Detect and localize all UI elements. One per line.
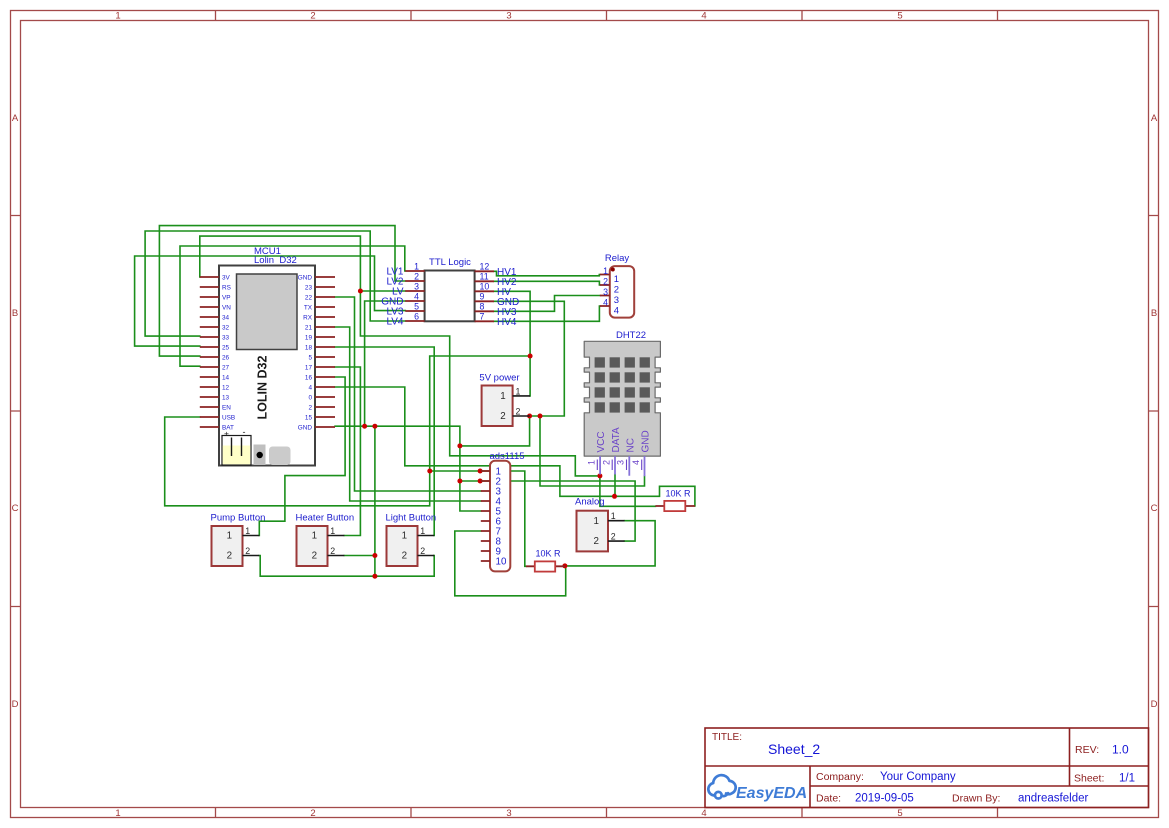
- Relay body: [610, 266, 634, 318]
- svg-text:4: 4: [308, 385, 312, 392]
- wire MCU 21 to ads pin4: [335, 327, 481, 501]
- svg-text:-: -: [243, 427, 246, 437]
- svg-text:Analog: Analog: [575, 497, 605, 508]
- junction dot ads pin1 riser: [427, 469, 432, 474]
- svg-text:2: 2: [414, 272, 419, 282]
- 5V power pin stubs: [513, 396, 531, 416]
- svg-text:A: A: [12, 113, 19, 124]
- wire MCU 16 to Pump Button pin1: [259, 377, 345, 536]
- Heater Button pin stubs: [328, 536, 345, 556]
- MCU1 battery electrolyte: [223, 446, 251, 465]
- wire net 3V3: MCU 3V to TTL LV, DHT VCC, pullup R1: [200, 236, 656, 506]
- svg-text:C: C: [12, 503, 19, 514]
- svg-text:DHT22: DHT22: [616, 330, 646, 341]
- svg-text:7: 7: [480, 312, 485, 322]
- svg-text:4: 4: [701, 11, 706, 22]
- svg-text:RS: RS: [222, 285, 231, 292]
- junction dot 5V power pin2: [527, 414, 532, 419]
- svg-text:A: A: [1151, 113, 1158, 124]
- svg-text:10K R: 10K R: [535, 549, 561, 559]
- svg-text:3: 3: [616, 460, 626, 465]
- svg-text:VP: VP: [222, 295, 231, 302]
- EasyEDA logo cloud: [708, 775, 735, 798]
- junction dot TTL LV node: [358, 289, 363, 294]
- svg-text:Drawn By:: Drawn By:: [952, 793, 1000, 805]
- svg-text:1: 1: [115, 808, 120, 819]
- svg-text:8: 8: [480, 302, 485, 312]
- svg-text:3: 3: [506, 808, 511, 819]
- svg-text:1: 1: [330, 526, 335, 536]
- svg-text:9: 9: [480, 292, 485, 302]
- TTL Logic left pin numbers: [414, 262, 419, 322]
- wire MCU 27 to TTL LV1: [180, 246, 405, 366]
- wire MCU 26 to TTL LV2: [159, 226, 405, 357]
- resistor R1 10K top right: [655, 489, 695, 512]
- svg-text:3V: 3V: [222, 275, 231, 282]
- svg-text:2: 2: [516, 406, 521, 416]
- svg-text:5: 5: [414, 302, 419, 312]
- MCU1 right pin names: [298, 275, 313, 432]
- Relay inside pin names: [614, 274, 619, 317]
- svg-text:2: 2: [312, 551, 317, 562]
- wire MCU 4 DATA net to DHT DATA and pullup R2: [335, 387, 695, 506]
- MCU1 ESP32 module block: [237, 274, 298, 350]
- svg-text:34: 34: [222, 315, 230, 322]
- Relay pin1 marker: [611, 268, 615, 272]
- svg-text:10: 10: [480, 282, 490, 292]
- MCU1 body: [219, 266, 315, 466]
- wire MCU 22 to ads pin3: [335, 297, 481, 491]
- svg-text:19: 19: [305, 335, 313, 342]
- svg-text:NC: NC: [626, 438, 637, 452]
- Relay pin stubs: [600, 275, 610, 307]
- frame right row letters: [1151, 113, 1158, 710]
- junction dot ads pin2 riser: [457, 479, 462, 484]
- ads1115 pin names: [496, 467, 507, 568]
- frame right ticks: [1149, 216, 1159, 607]
- svg-text:1: 1: [414, 262, 419, 272]
- svg-text:4: 4: [701, 808, 706, 819]
- junction dot GND at buttons column: [372, 424, 377, 429]
- Analog connector: [575, 497, 625, 552]
- wire TTL HV1 to Relay pin1: [494, 271, 600, 276]
- svg-text:5: 5: [897, 808, 902, 819]
- wire 5V pin2 to DHT GND pin4: [530, 416, 645, 486]
- wire MCU 33 to TTL LV4: [145, 231, 405, 336]
- MCU1 push button: [254, 445, 266, 466]
- svg-text:18: 18: [305, 345, 313, 352]
- junction dot ads pin1 stub: [478, 469, 483, 474]
- DHT22 pin numbers: [587, 460, 641, 465]
- svg-text:1: 1: [312, 531, 317, 542]
- svg-text:Relay: Relay: [605, 253, 630, 264]
- DHT22 grid squares: [595, 357, 650, 412]
- ads1115 pin stubs: [481, 471, 490, 561]
- svg-text:LV4: LV4: [386, 317, 403, 328]
- svg-text:2: 2: [603, 277, 608, 287]
- wire MCU USB to 5V riser: [165, 356, 530, 506]
- 5V power body: [482, 386, 513, 427]
- svg-text:5: 5: [308, 355, 312, 362]
- svg-text:2: 2: [594, 536, 599, 547]
- svg-text:3: 3: [614, 295, 619, 306]
- svg-text:2: 2: [330, 546, 335, 556]
- frame left ticks: [11, 216, 21, 607]
- svg-text:2: 2: [420, 546, 425, 556]
- svg-text:Sheet:: Sheet:: [1074, 773, 1104, 785]
- svg-text:1: 1: [402, 531, 407, 542]
- wire DHT pin1 green tail: [599, 475, 601, 476]
- svg-text:B: B: [1151, 308, 1157, 319]
- wire GND link to 5V power pin2: [460, 416, 530, 446]
- svg-text:C: C: [1151, 503, 1158, 514]
- wire Pump pin2 to Light pin2 GND: [259, 556, 434, 577]
- svg-text:4: 4: [603, 298, 608, 308]
- wire TTL HV2 to Relay pin2: [494, 281, 600, 285]
- svg-text:6: 6: [414, 312, 419, 322]
- svg-text:2: 2: [245, 546, 250, 556]
- DHT22 pin stubs: [600, 456, 644, 476]
- junction dot 5V pin2 branch: [538, 414, 543, 419]
- resistor R1 leads: [655, 505, 695, 507]
- svg-text:1: 1: [594, 516, 599, 527]
- wire ads pin2 to Analog pin2: [460, 481, 635, 541]
- svg-text:26: 26: [222, 355, 230, 362]
- MCU1 left pin stubs: [200, 277, 219, 427]
- svg-text:Date:: Date:: [816, 793, 841, 805]
- svg-text:VCC: VCC: [596, 431, 607, 452]
- TTL Logic right pin stubs: [475, 271, 494, 321]
- junction dot Heater pin2 line: [372, 553, 377, 558]
- svg-text:1: 1: [500, 391, 505, 402]
- MCU1 battery plates: [232, 438, 242, 457]
- frame bottom ticks: [216, 808, 998, 818]
- TTL Logic right net labels: [497, 267, 519, 328]
- ads1115 body: [490, 461, 510, 572]
- svg-text:andreasfelder: andreasfelder: [1018, 793, 1088, 805]
- Analog pin stubs: [608, 521, 625, 541]
- junction dot GND 5V-pin2 link: [457, 443, 462, 448]
- svg-text:EasyEDA: EasyEDA: [736, 785, 807, 802]
- junction dot ads pin2 stub: [478, 479, 483, 484]
- svg-text:TITLE:: TITLE:: [712, 732, 742, 743]
- svg-text:Lolin_D32: Lolin_D32: [254, 255, 297, 266]
- svg-text:10: 10: [496, 557, 507, 568]
- junction dot GND at TTL pin4 column: [362, 424, 367, 429]
- svg-text:B: B: [12, 308, 18, 319]
- wire Relay pin3 to TTL HV3: [494, 296, 600, 312]
- svg-text:1: 1: [115, 11, 120, 22]
- svg-text:1: 1: [614, 274, 619, 285]
- svg-text:VN: VN: [222, 305, 231, 312]
- svg-text:16: 16: [305, 375, 313, 382]
- svg-text:+: +: [224, 429, 229, 439]
- Pump Button pin stubs: [243, 536, 260, 556]
- ads1115 connector: [481, 451, 525, 571]
- resistor R2 10K bottom: [526, 549, 565, 572]
- svg-text:14: 14: [222, 375, 230, 382]
- resistor R2 body: [535, 561, 555, 571]
- wire Analog pin1 to junction: [565, 521, 655, 566]
- resistor R2 leads: [526, 565, 565, 567]
- wire TTL GND pin4 down: [365, 301, 406, 426]
- svg-text:3: 3: [506, 11, 511, 22]
- MCU1 left pin names: [222, 275, 235, 432]
- svg-text:13: 13: [222, 395, 230, 402]
- svg-text:2: 2: [308, 405, 312, 412]
- junction dot 5V node at HV riser: [528, 354, 533, 359]
- svg-text:HV4: HV4: [497, 317, 517, 328]
- TTL Logic body: [425, 271, 475, 322]
- svg-text:2: 2: [500, 411, 505, 422]
- junction dot DHT pin1: [597, 473, 602, 478]
- wire Heater pin2: [344, 555, 375, 557]
- svg-text:27: 27: [222, 365, 230, 372]
- svg-text:1: 1: [611, 511, 616, 521]
- TTL Logic left net labels: [381, 267, 404, 328]
- Analog body: [577, 511, 609, 552]
- Pump Button body: [212, 526, 243, 566]
- svg-text:10K R: 10K R: [665, 489, 691, 499]
- svg-text:1: 1: [516, 386, 521, 396]
- svg-text:Pump Button: Pump Button: [211, 513, 266, 524]
- svg-text:2: 2: [614, 284, 619, 295]
- wire TTL GND pin9 down: [494, 301, 564, 416]
- MCU1 Lolin_D32 component: [200, 246, 335, 466]
- svg-text:2: 2: [402, 551, 407, 562]
- svg-text:2: 2: [227, 551, 232, 562]
- svg-text:2: 2: [601, 460, 611, 465]
- svg-text:2: 2: [310, 11, 315, 22]
- svg-text:4: 4: [614, 305, 619, 316]
- svg-text:3: 3: [414, 282, 419, 292]
- svg-text:1: 1: [603, 266, 608, 276]
- wire TTL HV pin10 to 5V power pin1: [494, 291, 530, 396]
- wire TTL HV4 to Relay pin4: [494, 306, 600, 321]
- Heater Button connector: [296, 513, 355, 567]
- TTL Logic left pin stubs: [405, 271, 424, 321]
- svg-text:TTL Logic: TTL Logic: [429, 257, 471, 268]
- junction dot DATA jog: [612, 494, 617, 499]
- svg-text:11: 11: [480, 272, 489, 282]
- wire MCU 25 to TTL LV3: [135, 256, 406, 346]
- svg-text:5: 5: [897, 11, 902, 22]
- Relay connector: [600, 253, 634, 318]
- svg-text:33: 33: [222, 335, 230, 342]
- wire ads pin7 loop: [455, 531, 566, 596]
- Heater Button body: [297, 526, 328, 566]
- svg-text:0: 0: [308, 395, 312, 402]
- TTL Logic component: [381, 257, 519, 328]
- svg-text:Sheet_2: Sheet_2: [768, 741, 820, 757]
- svg-text:17: 17: [305, 365, 313, 372]
- MCU1 usb connector: [269, 447, 291, 466]
- wire MCU GND bottom to ads pin5: [335, 426, 481, 511]
- svg-text:GND: GND: [641, 430, 652, 452]
- wire TTL pin3 LV branch: [360, 290, 405, 292]
- frame top ticks: [216, 11, 998, 21]
- TTL Logic right pin numbers: [480, 262, 490, 322]
- junction dot resistor R2 node: [562, 563, 567, 568]
- svg-text:4: 4: [414, 292, 419, 302]
- svg-text:12: 12: [480, 262, 490, 272]
- frame top column numbers: [115, 11, 902, 22]
- svg-text:Company:: Company:: [816, 771, 864, 783]
- Light Button pin stubs: [418, 536, 435, 556]
- Relay outside pin numbers: [603, 266, 608, 308]
- svg-text:5V power: 5V power: [479, 373, 519, 384]
- MCU1 right pin stubs: [315, 277, 335, 427]
- svg-text:1: 1: [420, 526, 425, 536]
- svg-text:Heater Button: Heater Button: [296, 513, 355, 524]
- 5V power connector: [479, 373, 530, 427]
- DHT22 pin number underlines: [597, 460, 641, 471]
- svg-text:2: 2: [611, 532, 616, 542]
- svg-text:GND: GND: [298, 275, 313, 282]
- wire DHT DATA pin2 drop: [614, 475, 616, 497]
- svg-text:2019-09-05: 2019-09-05: [855, 793, 914, 805]
- svg-text:21: 21: [305, 325, 313, 332]
- title block border: [705, 728, 1149, 808]
- svg-text:D: D: [12, 699, 19, 710]
- svg-text:REV:: REV:: [1075, 744, 1099, 756]
- svg-text:1/1: 1/1: [1119, 773, 1135, 785]
- svg-text:32: 32: [222, 325, 230, 332]
- frame bottom column numbers: [115, 808, 902, 819]
- resistor R1 body: [664, 501, 685, 511]
- MCU1 battery outline: [222, 436, 251, 466]
- svg-text:TX: TX: [304, 305, 313, 312]
- Light Button body: [387, 526, 418, 566]
- frame left row letters: [12, 113, 19, 710]
- svg-text:1: 1: [227, 531, 232, 542]
- wire GND to buttons pin2: [374, 426, 376, 576]
- svg-text:Light Button: Light Button: [386, 513, 437, 524]
- svg-text:2: 2: [310, 808, 315, 819]
- svg-text:25: 25: [222, 345, 230, 352]
- svg-text:23: 23: [305, 285, 313, 292]
- svg-text:1: 1: [245, 526, 250, 536]
- Light Button connector: [386, 513, 437, 567]
- svg-text:1.0: 1.0: [1112, 743, 1129, 757]
- svg-text:GND: GND: [298, 425, 313, 432]
- svg-text:EN: EN: [222, 405, 231, 412]
- svg-text:RX: RX: [303, 315, 313, 322]
- svg-text:12: 12: [222, 385, 230, 392]
- svg-text:DATA: DATA: [611, 427, 622, 453]
- svg-text:D: D: [1151, 699, 1158, 710]
- Pump Button connector: [211, 513, 266, 567]
- junction dot buttons GND line: [372, 574, 377, 579]
- wire ads1115 pin1 5V line: [430, 471, 526, 566]
- svg-text:4: 4: [631, 460, 641, 465]
- svg-text:22: 22: [305, 295, 313, 302]
- svg-text:3: 3: [603, 287, 608, 297]
- svg-text:LOLIN D32: LOLIN D32: [256, 356, 270, 420]
- DHT22 component: [584, 330, 660, 476]
- DHT22 body with side notches: [584, 341, 660, 456]
- svg-text:Your Company: Your Company: [880, 771, 956, 783]
- svg-text:15: 15: [305, 415, 313, 422]
- svg-text:USB: USB: [222, 415, 235, 422]
- wire MCU 18 to Light Button pin1: [335, 347, 434, 536]
- svg-text:1: 1: [587, 460, 597, 465]
- wire MCU 17 to Heater Button pin1: [335, 367, 360, 536]
